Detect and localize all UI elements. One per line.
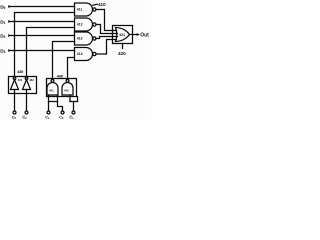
inverter 431 bubble bbox=[13, 77, 16, 80]
wire D3 arrowhead bbox=[8, 49, 11, 52]
wire NAND 441 input B down and over bbox=[58, 95, 63, 111]
terminal label C1 bbox=[45, 116, 50, 121]
nand gate 413 body bbox=[75, 32, 93, 45]
node D2 input label bbox=[0, 33, 5, 39]
svg-text:421: 421 bbox=[119, 33, 125, 37]
terminal circle C2 bbox=[13, 111, 16, 114]
svg-text:432: 432 bbox=[29, 78, 34, 82]
wire output from gate 421 to Out bbox=[130, 34, 138, 36]
wire jumper between 441 inputs bbox=[49, 101, 58, 103]
wire gate 414 output to OR gate input 4 bbox=[96, 40, 117, 55]
svg-text:430: 430 bbox=[17, 69, 24, 74]
box 430 around inverters bbox=[9, 77, 37, 94]
wire NAND 441 input A down to terminal bbox=[48, 95, 50, 111]
terminal label CB2 bbox=[22, 115, 27, 120]
inverter 431 triangle bbox=[11, 80, 19, 90]
output arrowhead bbox=[137, 33, 140, 36]
terminal circle C0 bbox=[61, 111, 64, 114]
nand gate 442 body bbox=[62, 83, 73, 96]
callout 410 label bbox=[98, 2, 106, 7]
wire D0 horizontal to gate 411 input A bbox=[11, 6, 75, 8]
svg-text:441: 441 bbox=[49, 88, 54, 92]
nand gate 411 body bbox=[75, 3, 93, 16]
inverter 432 bubble bbox=[25, 77, 28, 80]
label 430 bbox=[17, 69, 24, 74]
svg-text:413: 413 bbox=[77, 37, 83, 41]
svg-text:440: 440 bbox=[57, 74, 64, 79]
wire select riser from NAND 441 output to gate 413 input B bbox=[53, 42, 75, 80]
inverter 432 triangle bbox=[23, 80, 31, 90]
nand gate 442 bubble bbox=[66, 80, 69, 83]
label 420 bbox=[118, 51, 126, 56]
nand gate 442 label bbox=[64, 88, 69, 92]
terminal label CB1 bbox=[69, 115, 74, 120]
box 440 around NAND gates bbox=[47, 79, 77, 97]
node D3 input label bbox=[0, 48, 5, 54]
svg-text:414: 414 bbox=[77, 52, 83, 56]
wire select riser from inverter 431 output to gate 411 input B bbox=[15, 13, 75, 78]
wire select riser from NAND 442 output to gate 414 input B bbox=[68, 58, 75, 80]
box around output gate 420 bbox=[113, 26, 133, 44]
terminal circle CB1 bbox=[72, 111, 75, 114]
terminal circle C1 bbox=[47, 111, 50, 114]
wire inverter 432 input to terminal bbox=[26, 90, 28, 112]
svg-text:D0: D0 bbox=[0, 4, 5, 10]
node D0 input label bbox=[0, 4, 5, 10]
terminal circle CB2 bbox=[25, 111, 28, 114]
wire gate 412 output to OR gate input 2 bbox=[96, 25, 118, 34]
nand gate 441 label bbox=[49, 88, 54, 92]
terminal label C0 bbox=[59, 116, 64, 121]
wire jumper to box edge drop bbox=[70, 101, 78, 103]
nand gate 412 body bbox=[75, 18, 93, 31]
svg-text:412: 412 bbox=[77, 23, 83, 27]
wire gate 411 output to OR gate input 1 bbox=[96, 10, 117, 31]
wire gate 413 output to OR gate input 3 bbox=[96, 37, 118, 39]
svg-text:411: 411 bbox=[77, 8, 83, 12]
wire D0 arrowhead bbox=[8, 5, 11, 8]
wire D1 horizontal to gate 412 input A bbox=[11, 21, 75, 23]
wire stub below box 420 bbox=[122, 44, 124, 49]
nand gate 413 output bubble bbox=[93, 37, 96, 40]
svg-text:410: 410 bbox=[98, 2, 106, 7]
node Out label bbox=[140, 32, 149, 38]
nand gate 411 output bubble bbox=[93, 8, 96, 11]
label 440 bbox=[57, 74, 64, 79]
wire NAND 442 input A down to jumper bbox=[69, 95, 71, 102]
inverter 431 label bbox=[18, 78, 23, 82]
nand gate 414 label bbox=[77, 52, 83, 56]
svg-text:Out: Out bbox=[140, 32, 149, 38]
nand gate 413 label bbox=[77, 37, 83, 41]
nand gate 412 output bubble bbox=[93, 23, 96, 26]
inverter 432 label bbox=[29, 78, 34, 82]
callout 410 leader bbox=[93, 4, 98, 5]
svg-text:431: 431 bbox=[18, 78, 23, 82]
wire D1 arrowhead bbox=[8, 20, 11, 23]
svg-text:442: 442 bbox=[64, 88, 69, 92]
svg-text:D1: D1 bbox=[0, 19, 5, 25]
nand gate 411 label bbox=[77, 8, 83, 12]
wire along box 440 right edge bbox=[77, 97, 79, 102]
svg-text:D2: D2 bbox=[0, 33, 5, 39]
nand gate 412 label bbox=[77, 23, 83, 27]
wire drop to terminal CB1 bbox=[73, 102, 75, 112]
wire select riser from inverter 432 output to gate 412 input B bbox=[27, 28, 75, 78]
nand gate 441 body bbox=[47, 83, 58, 96]
nand gate 441 bubble bbox=[51, 80, 54, 83]
svg-text:420: 420 bbox=[118, 51, 126, 56]
or gate 421 label bbox=[119, 33, 125, 37]
node D1 input label bbox=[0, 19, 5, 25]
wire D3 horizontal to gate 414 input A bbox=[11, 50, 75, 52]
wire inverter 431 input to terminal bbox=[14, 90, 16, 112]
wire D2 horizontal to gate 413 input A bbox=[11, 35, 75, 37]
terminal label C2 bbox=[12, 116, 17, 121]
nand gate 414 output bubble bbox=[93, 52, 96, 55]
wire D2 arrowhead bbox=[8, 34, 11, 37]
or gate 421 body bbox=[116, 28, 130, 42]
nand gate 414 body bbox=[75, 48, 93, 61]
svg-text:D3: D3 bbox=[0, 48, 5, 54]
